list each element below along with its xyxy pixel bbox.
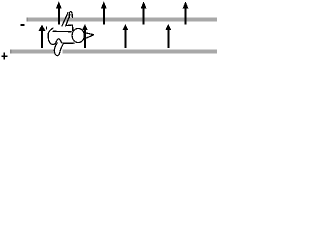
pump nozzle mouth edge xyxy=(83,33,85,39)
pump nozzle top edge xyxy=(85,33,94,35)
pump top inlet pipe line B xyxy=(66,15,70,26)
pump body bottom left curve xyxy=(48,39,56,45)
label plus xyxy=(1,52,7,59)
pump body left tick xyxy=(46,27,48,29)
pump body bottom right edge xyxy=(62,42,75,45)
pump body bottom hump xyxy=(56,39,62,43)
current arrow A3 (top row) xyxy=(141,1,147,24)
pump nozzle bottom edge xyxy=(85,35,94,39)
top rail (negative wire) xyxy=(27,18,217,22)
pump symbol body outline xyxy=(47,12,94,56)
top rail left end cap xyxy=(27,18,28,22)
current arrow A2 (top row) xyxy=(101,1,107,24)
current arrow A4 (top row) xyxy=(183,1,189,24)
current arrow B2 (middle row, over pump) xyxy=(82,24,88,48)
current arrow A1 (top row) xyxy=(56,1,62,24)
current arrow B3 (middle row) xyxy=(122,24,128,48)
pump inlet neck horizontal xyxy=(66,24,72,26)
pump top inlet pipe line A xyxy=(62,13,68,26)
pump inlet pipe top arch xyxy=(69,12,72,18)
pump face oval xyxy=(72,28,84,42)
pump body top edge xyxy=(53,30,71,32)
pump inlet neck vertical xyxy=(72,25,74,30)
bottom rail (positive wire) left segment xyxy=(10,50,54,54)
current arrow B1 (middle row) xyxy=(39,24,46,47)
pump outlet tail right stroke xyxy=(57,45,62,56)
current arrow B4 (middle row) xyxy=(165,24,171,48)
bottom rail left end cap xyxy=(10,50,11,54)
background xyxy=(0,0,217,62)
label minus xyxy=(21,24,25,26)
pump outlet tail left stroke xyxy=(54,43,57,56)
pump body left cap xyxy=(48,28,53,38)
bottom rail right segment xyxy=(62,50,217,54)
